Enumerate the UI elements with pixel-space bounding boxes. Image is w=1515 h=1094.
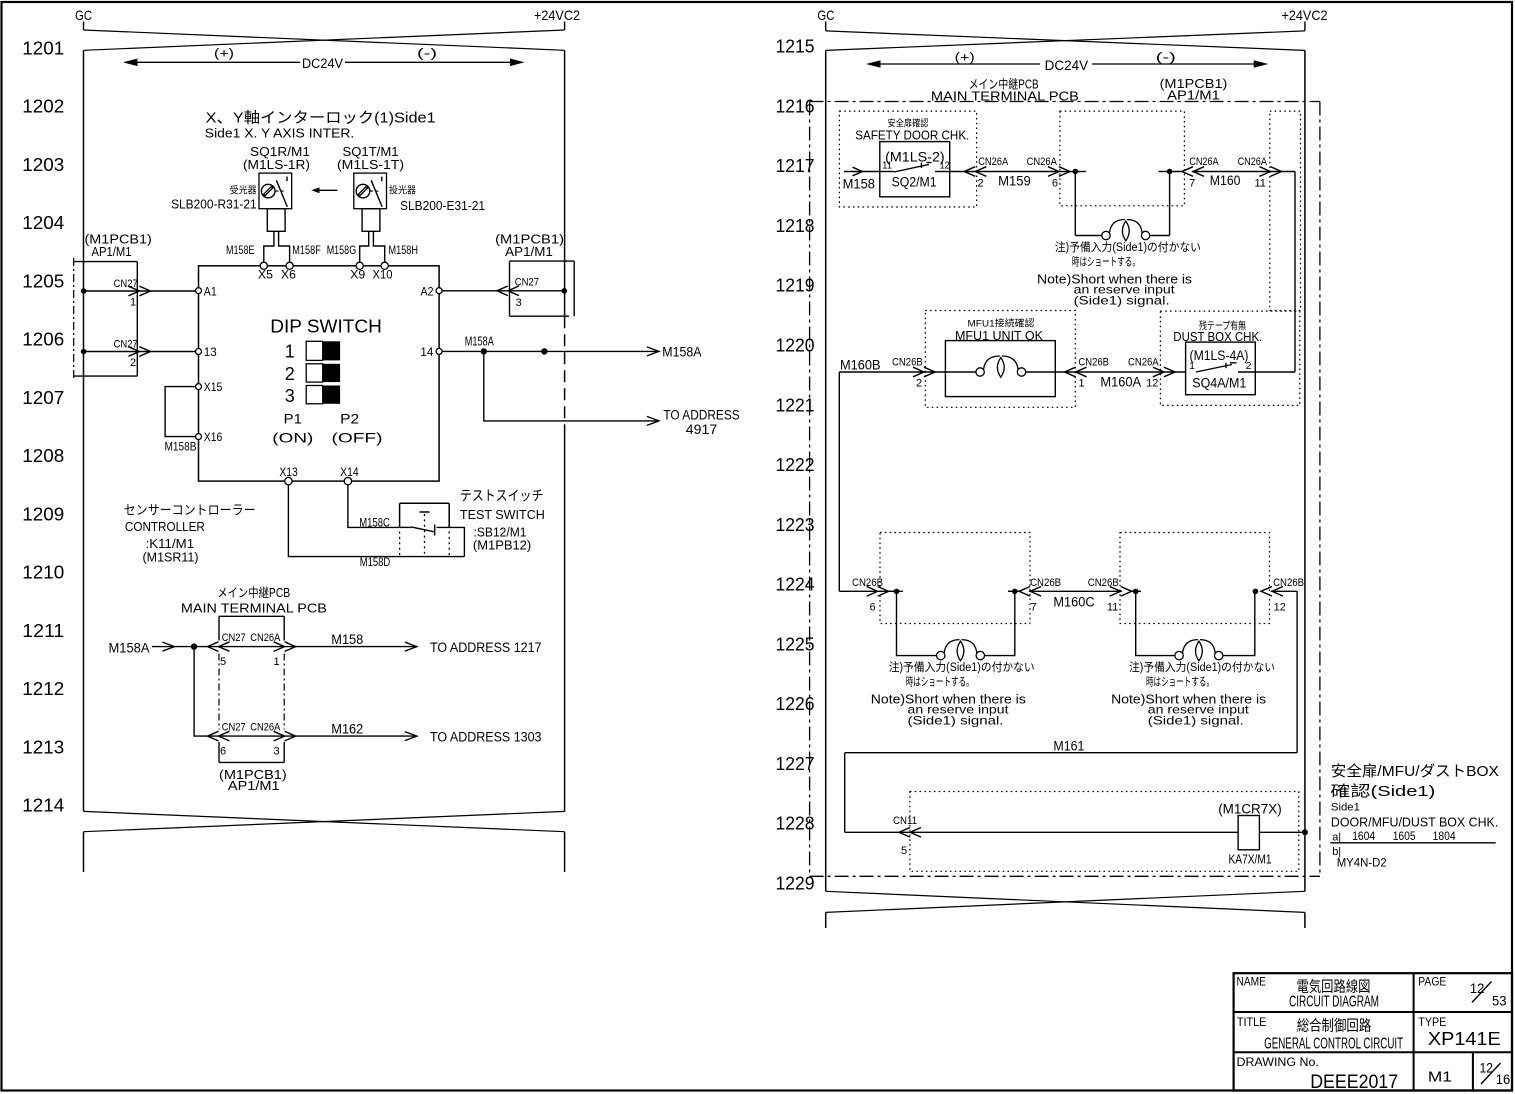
connector CN26A pin 11	[1260, 167, 1282, 177]
connector bracket M1PCB1 left	[74, 261, 138, 263]
svg-text:6: 6	[1052, 177, 1058, 189]
pin X16	[196, 434, 202, 440]
svg-text:X14: X14	[340, 465, 359, 479]
svg-text:(Side1) signal.: (Side1) signal.	[1148, 714, 1244, 728]
connector CN26B pin 2	[913, 367, 935, 377]
svg-text:TO ADDRESS 1217: TO ADDRESS 1217	[430, 640, 542, 655]
dashed box safety door check	[839, 111, 976, 207]
terminal X10	[381, 262, 388, 269]
pin 14	[436, 348, 442, 354]
svg-text:Side1: Side1	[1331, 802, 1360, 814]
svg-text:1221: 1221	[776, 394, 815, 415]
svg-text:注)予備入力(Side1)の付かない: 注)予備入力(Side1)の付かない	[889, 660, 1035, 674]
pin X13	[285, 477, 292, 484]
svg-text:X5: X5	[258, 268, 273, 282]
svg-text:(ON): (ON)	[272, 430, 313, 446]
wire M158A from pin 14	[443, 350, 659, 352]
svg-text:X6: X6	[281, 268, 296, 282]
light beam arrow between sensors	[319, 189, 337, 191]
connector CN26B pin 6	[867, 587, 889, 597]
junction right reserve-1	[1012, 589, 1018, 595]
svg-text:CN27: CN27	[114, 278, 138, 290]
svg-text:14: 14	[420, 345, 433, 359]
wire drop right to plug	[1169, 172, 1171, 236]
svg-text:CN27: CN27	[515, 277, 539, 289]
connector CN27 pin 6	[208, 731, 230, 741]
svg-text:MAIN TERMINAL PCB: MAIN TERMINAL PCB	[181, 601, 327, 616]
svg-text:SLB200-E31-21: SLB200-E31-21	[400, 198, 485, 213]
svg-text:M158G: M158G	[327, 243, 357, 257]
wire CN11 row 1228	[845, 831, 1305, 833]
connector CN26A pin 6	[1048, 167, 1070, 177]
wire pin A2 to +24VC2 rail	[442, 290, 564, 292]
svg-text:2: 2	[978, 177, 984, 189]
svg-text:5: 5	[220, 656, 226, 668]
svg-text:1204: 1204	[22, 212, 64, 233]
svg-text:時はショートする。: 時はショートする。	[1146, 676, 1214, 689]
svg-text:SLB200-R31-21: SLB200-R31-21	[171, 197, 257, 212]
svg-text:CIRCUIT DIAGRAM: CIRCUIT DIAGRAM	[1289, 994, 1379, 1011]
controller block K11/M1 outline	[199, 266, 440, 481]
wire test switch output	[437, 527, 465, 556]
limit switch SQ2/M1 box	[880, 142, 950, 197]
connector CN27 pin 1	[128, 286, 150, 296]
svg-text:1212: 1212	[22, 678, 64, 699]
svg-text:M158E: M158E	[226, 243, 255, 257]
wire +24VC2 rail (right ladder)	[1304, 50, 1306, 891]
svg-text:A1: A1	[204, 285, 217, 299]
svg-text:1224: 1224	[776, 574, 815, 595]
svg-text:M160C: M160C	[1053, 595, 1094, 610]
svg-text:センサーコントローラー: センサーコントローラー	[124, 503, 256, 518]
junction on +24VC2 rail row 1228	[1302, 829, 1308, 835]
wire CN27-1 to pin A1	[84, 290, 196, 292]
wire drop left to plug	[1074, 172, 1076, 236]
dashed box right column	[1270, 111, 1301, 310]
svg-text:M158D: M158D	[360, 555, 391, 569]
svg-text:M158A: M158A	[109, 641, 150, 656]
svg-text:M158: M158	[843, 177, 875, 192]
wire M159	[950, 171, 1070, 173]
svg-text:DC24V: DC24V	[1045, 57, 1089, 73]
plug connector MFU1	[945, 371, 976, 373]
svg-text:SAFETY DOOR CHK.: SAFETY DOOR CHK.	[855, 128, 969, 143]
svg-text:CN27: CN27	[222, 722, 246, 734]
junction reserve input left	[1073, 169, 1079, 175]
svg-text:AP1/M1: AP1/M1	[92, 244, 132, 259]
svg-text:1205: 1205	[22, 270, 64, 291]
svg-text:CN26A: CN26A	[978, 156, 1009, 168]
plug connector reserve-1	[897, 591, 937, 655]
svg-text:PAGE: PAGE	[1418, 977, 1446, 989]
svg-text:CN26B: CN26B	[852, 577, 883, 589]
svg-text:CN26A: CN26A	[1128, 357, 1159, 369]
connector CN26B pin 11	[1110, 587, 1132, 597]
MFU1 connector box	[945, 341, 1055, 397]
svg-text:(+): (+)	[955, 50, 975, 65]
svg-text:1214: 1214	[22, 795, 64, 816]
svg-text:1226: 1226	[776, 693, 815, 714]
svg-text:Side1 X. Y AXIS INTER.: Side1 X. Y AXIS INTER.	[205, 126, 354, 141]
junction reserve input right	[1167, 169, 1173, 175]
svg-text:7: 7	[1189, 177, 1195, 189]
svg-text:注)予備入力(Side1)の付かない: 注)予備入力(Side1)の付かない	[1129, 660, 1275, 674]
svg-text:(M1SR11): (M1SR11)	[143, 550, 199, 565]
pin A2	[436, 288, 442, 294]
svg-text:GC: GC	[75, 7, 92, 23]
svg-text:(Side1) signal.: (Side1) signal.	[908, 714, 1004, 728]
svg-text:1201: 1201	[22, 38, 64, 59]
svg-text:1228: 1228	[776, 813, 815, 834]
svg-text:2: 2	[285, 364, 295, 384]
svg-text:DRAWING No.: DRAWING No.	[1237, 1057, 1319, 1069]
svg-text:(M1LS-4A): (M1LS-4A)	[1190, 348, 1249, 363]
svg-text:(M1LS-1R): (M1LS-1R)	[243, 157, 310, 172]
board boundary chain line M1PCB1	[810, 101, 1320, 103]
svg-text:M158B: M158B	[165, 440, 197, 454]
switch SQ2/M1 contact	[880, 171, 894, 173]
junction left reserve-1	[894, 589, 900, 595]
dashed box reserve input row 1224 right	[1120, 533, 1270, 624]
connector CN27 pin 3	[497, 286, 519, 296]
svg-text:M160: M160	[1210, 173, 1241, 188]
junction M158A row 1211	[191, 643, 197, 649]
wire to M161 drop	[1271, 590, 1297, 592]
connector CN26B pin 7	[1019, 587, 1041, 597]
sensor emitter SQ1T/M1 (SLB200-E31-21)	[354, 173, 387, 209]
test switch SB12/M1 box	[400, 502, 450, 504]
svg-text:53: 53	[1492, 994, 1507, 1009]
svg-text:a|: a|	[1332, 832, 1341, 844]
svg-text:SQ4A/M1: SQ4A/M1	[1192, 376, 1246, 391]
svg-text:CN26A: CN26A	[1238, 156, 1268, 168]
svg-text:DIP SWITCH: DIP SWITCH	[270, 317, 382, 337]
svg-text:CN27: CN27	[114, 338, 138, 350]
DC24V polarity arrow (right ladder)	[880, 63, 1040, 65]
DC24V polarity arrow (left ladder)	[137, 61, 300, 63]
wire M162 through connector row 1212	[219, 735, 417, 737]
wire M158 input	[844, 171, 880, 173]
wire M158B loop X15-X16	[165, 387, 195, 437]
svg-text:(M1CR7X): (M1CR7X)	[1218, 802, 1282, 817]
svg-text:(M1LS-1T): (M1LS-1T)	[337, 157, 404, 172]
svg-text:TO ADDRESS: TO ADDRESS	[663, 408, 739, 423]
svg-text:M158A: M158A	[465, 335, 494, 349]
svg-text:確認(Side1): 確認(Side1)	[1330, 783, 1435, 800]
svg-text:時はショートする。: 時はショートする。	[906, 676, 974, 689]
continuation crossover top (left ladder)	[84, 30, 565, 50]
svg-text:2: 2	[130, 357, 136, 369]
svg-text:(+): (+)	[214, 46, 234, 61]
svg-text:M160B: M160B	[840, 357, 881, 372]
svg-text:1: 1	[130, 297, 136, 309]
svg-text:NAME: NAME	[1237, 977, 1267, 989]
wire M160B corner and drop	[839, 371, 945, 373]
wire GC rail (right ladder)	[825, 50, 827, 891]
svg-text:M158H: M158H	[389, 243, 419, 257]
svg-text:13: 13	[204, 345, 217, 359]
svg-text:投光器: 投光器	[389, 185, 416, 197]
svg-text:X16: X16	[204, 430, 223, 444]
wire M160C	[1029, 590, 1122, 592]
wire CN27-2 to pin 13	[84, 351, 196, 353]
wire branch to row 1212	[194, 647, 219, 737]
switch SQ4A/M1 contact	[1196, 365, 1232, 373]
svg-text:M159: M159	[998, 174, 1031, 189]
svg-text:CN26A: CN26A	[1189, 156, 1219, 168]
junction on GC rail row 1205	[81, 288, 87, 294]
wire M158 through connector row 1211	[219, 646, 417, 648]
svg-text:6: 6	[220, 746, 226, 758]
svg-text:テストスイッチ: テストスイッチ	[460, 488, 544, 504]
svg-text:安全扉/MFU/ダストBOX: 安全扉/MFU/ダストBOX	[1331, 762, 1499, 780]
svg-text:1207: 1207	[22, 387, 64, 408]
svg-text:1223: 1223	[776, 514, 815, 535]
terminal X9	[356, 262, 363, 269]
svg-text:3: 3	[285, 386, 295, 406]
svg-text:+24VC2: +24VC2	[534, 7, 580, 23]
connector CN27 pin 5	[208, 642, 230, 652]
svg-text:1220: 1220	[776, 335, 815, 356]
connector CN26A pin 12	[1153, 367, 1175, 377]
connector CN11 pin 5	[899, 828, 921, 838]
svg-text:(OFF): (OFF)	[332, 430, 383, 446]
svg-text:TEST SWITCH: TEST SWITCH	[460, 507, 545, 522]
wire M161	[845, 752, 1297, 754]
svg-text:11: 11	[882, 160, 892, 172]
svg-text:1: 1	[1189, 360, 1195, 372]
connector CN26A pin 1	[274, 642, 296, 652]
svg-text:TITLE: TITLE	[1237, 1017, 1267, 1029]
wire M158A input row 1211	[152, 646, 219, 648]
svg-text:1227: 1227	[776, 753, 815, 774]
svg-text:1213: 1213	[22, 736, 64, 757]
svg-text:M160A: M160A	[1100, 375, 1141, 390]
wire X13 to M158D	[288, 485, 464, 557]
svg-text:総合制御回路: 総合制御回路	[1297, 1018, 1372, 1035]
svg-text:2: 2	[1246, 360, 1252, 372]
connector bracket M1PCB1 right	[509, 261, 511, 316]
svg-text:X13: X13	[279, 465, 298, 479]
svg-text:1203: 1203	[22, 154, 64, 175]
svg-text:3: 3	[273, 746, 279, 758]
dashed box reserve input row 1217	[1060, 111, 1185, 206]
svg-text:1210: 1210	[22, 562, 64, 583]
svg-text:1804: 1804	[1433, 831, 1457, 843]
svg-text:CN26A: CN26A	[250, 632, 281, 644]
svg-text:SQ2/M1: SQ2/M1	[892, 175, 937, 190]
svg-text:X15: X15	[204, 380, 223, 394]
pin A1	[196, 288, 202, 294]
junction M158A at rail crossing	[541, 348, 547, 354]
svg-text:12: 12	[940, 160, 950, 172]
svg-text:1222: 1222	[776, 454, 815, 475]
continuation crossover bottom (left ladder)	[84, 811, 565, 831]
svg-text:12: 12	[1470, 981, 1485, 996]
dashed box MFU1 unit OK	[925, 311, 1075, 408]
svg-text:DEEE2017: DEEE2017	[1310, 1072, 1398, 1093]
svg-text:M158A: M158A	[662, 345, 701, 360]
wire M161 drop to CN11	[844, 753, 846, 833]
svg-text:KA7X/M1: KA7X/M1	[1229, 853, 1272, 867]
svg-text:1217: 1217	[776, 155, 815, 176]
svg-text:CN26B: CN26B	[892, 357, 923, 369]
title block table	[1234, 973, 1512, 1090]
junction M158A branch	[481, 348, 487, 354]
svg-text:5: 5	[901, 845, 907, 857]
svg-text:GC: GC	[817, 7, 834, 23]
junction on GC rail row 1206	[81, 349, 87, 355]
svg-text:M158: M158	[331, 632, 363, 647]
dashed box reserve input row 1224 left	[880, 533, 1030, 624]
svg-text:1209: 1209	[22, 503, 64, 524]
continuation crossover bottom (right ladder)	[826, 891, 1305, 912]
svg-text:M1: M1	[1428, 1068, 1452, 1085]
svg-text:1604: 1604	[1352, 831, 1376, 843]
terminal X5	[260, 262, 267, 269]
svg-text:1: 1	[1078, 378, 1084, 390]
svg-text:X10: X10	[373, 268, 393, 282]
svg-text:DC24V: DC24V	[302, 55, 344, 71]
connector CN26A pin 2	[964, 167, 986, 177]
svg-text:16: 16	[1496, 1072, 1511, 1087]
svg-text:CN11: CN11	[893, 815, 917, 827]
dashed box door/mfu/dustbox check relay	[910, 792, 1299, 872]
svg-text:1: 1	[285, 342, 295, 362]
svg-text:1208: 1208	[22, 445, 64, 466]
svg-text:3: 3	[516, 297, 522, 309]
connector CN26B pin 1	[1065, 367, 1087, 377]
svg-text:1206: 1206	[22, 329, 64, 350]
svg-text:GENERAL CONTROL CIRCUIT: GENERAL CONTROL CIRCUIT	[1264, 1036, 1403, 1053]
svg-text:1218: 1218	[776, 215, 815, 236]
svg-text:CN27: CN27	[222, 632, 246, 644]
svg-text:M158C: M158C	[359, 515, 390, 529]
svg-text:受光器: 受光器	[230, 185, 257, 197]
wire M160 drop to SQ4A	[1294, 172, 1296, 372]
row address labels 1215-1229	[776, 36, 815, 894]
svg-text:注)予備入力(Side1)の付かない: 注)予備入力(Side1)の付かない	[1055, 240, 1201, 254]
svg-text:4917: 4917	[686, 422, 717, 437]
svg-text:11: 11	[1254, 177, 1265, 189]
svg-text:AP1/M1: AP1/M1	[228, 778, 280, 793]
junction right reserve-2	[1253, 589, 1259, 595]
wire GC rail left (left ladder)	[83, 50, 85, 811]
svg-text:CN26A: CN26A	[1027, 156, 1058, 168]
svg-text:X9: X9	[350, 268, 365, 282]
pin X15	[196, 384, 202, 390]
connector CN26A pin 3	[274, 731, 296, 741]
svg-text:1605: 1605	[1393, 831, 1416, 843]
svg-text:1219: 1219	[776, 275, 815, 296]
svg-text:CN26B: CN26B	[1030, 577, 1061, 589]
dashed box dust box check	[1160, 311, 1299, 405]
wire into CN26B-6	[839, 590, 892, 592]
svg-text:(Side1) signal.: (Side1) signal.	[1074, 294, 1170, 308]
svg-text:AP1/M1: AP1/M1	[505, 244, 553, 259]
limit switch SQ4A/M1 box	[1186, 342, 1256, 395]
svg-text:MY4N-D2: MY4N-D2	[1337, 856, 1387, 870]
svg-text:2: 2	[916, 378, 922, 390]
svg-text:1: 1	[273, 656, 279, 668]
connector CN26B pin 12	[1261, 587, 1283, 597]
svg-text:DOOR/MFU/DUST BOX CHK.: DOOR/MFU/DUST BOX CHK.	[1331, 815, 1498, 830]
svg-text:1215: 1215	[776, 36, 815, 57]
svg-text:1211: 1211	[22, 620, 64, 641]
svg-text:TYPE: TYPE	[1418, 1017, 1446, 1029]
wire +24VC2 rail right (left ladder)	[564, 50, 566, 316]
svg-text:1202: 1202	[22, 96, 64, 117]
svg-text:7: 7	[1031, 602, 1037, 614]
svg-text:12: 12	[1146, 378, 1158, 390]
junction left reserve-2	[1133, 589, 1139, 595]
svg-text:P1: P1	[284, 411, 302, 427]
svg-text:M161: M161	[1053, 739, 1084, 754]
svg-text:6: 6	[869, 602, 875, 614]
svg-text:AP1/M1: AP1/M1	[1167, 88, 1220, 103]
connector CN26A pin 7	[1182, 167, 1204, 177]
svg-text:M162: M162	[331, 722, 363, 737]
svg-text:P2: P2	[340, 411, 359, 427]
terminal PCB box (left)	[219, 615, 284, 617]
svg-text:(-): (-)	[1156, 50, 1176, 65]
svg-text:X、Y軸インターロック(1)Side1: X、Y軸インターロック(1)Side1	[206, 110, 436, 127]
svg-text:(-): (-)	[417, 46, 437, 61]
junction on +24VC2 rail row 1205	[562, 288, 568, 294]
pin 13	[196, 349, 202, 355]
wire X14 to M158C	[348, 485, 399, 528]
wire branch to address 4917	[484, 351, 659, 421]
svg-text:TO ADDRESS 1303: TO ADDRESS 1303	[430, 730, 542, 745]
svg-text:+24VC2: +24VC2	[1282, 7, 1328, 23]
svg-text:CN26B: CN26B	[1273, 577, 1304, 589]
svg-text:XP141E: XP141E	[1428, 1029, 1501, 1049]
sensor receiver SQ1R/M1 (SLB200-R31-21)	[259, 173, 292, 209]
svg-text:時はショートする。: 時はショートする。	[1072, 256, 1140, 269]
svg-text:CN26B: CN26B	[1088, 577, 1119, 589]
plug connector reserve-2	[1136, 591, 1178, 655]
continuation crossover top (right ladder)	[826, 31, 1305, 51]
pin X14	[344, 477, 351, 484]
svg-text:CONTROLLER: CONTROLLER	[125, 519, 205, 534]
plug connector reserve input row 1218	[1075, 235, 1101, 237]
svg-text:1229: 1229	[776, 873, 815, 894]
svg-text:メイン中継PCB: メイン中継PCB	[217, 585, 290, 600]
row address labels 1201-1214	[22, 38, 64, 816]
terminal X6	[286, 262, 293, 269]
svg-text:A2: A2	[421, 285, 434, 299]
svg-text:(M1LS-2): (M1LS-2)	[885, 150, 945, 165]
svg-text:1225: 1225	[776, 633, 815, 654]
svg-text:1216: 1216	[776, 95, 815, 116]
svg-text:CN26B: CN26B	[1078, 357, 1109, 369]
relay coil KA7X/M1	[1238, 816, 1259, 850]
wire M160A	[1055, 371, 1185, 373]
connector CN27 pin 2	[128, 347, 150, 357]
svg-text:12: 12	[1274, 602, 1286, 614]
svg-text:CN26A: CN26A	[250, 722, 281, 734]
svg-text:11: 11	[1107, 602, 1118, 614]
test switch contact blade	[400, 526, 412, 528]
wire M160	[1192, 171, 1295, 173]
svg-text:(M1PB12): (M1PB12)	[473, 538, 531, 553]
svg-text:M158F: M158F	[292, 243, 321, 257]
